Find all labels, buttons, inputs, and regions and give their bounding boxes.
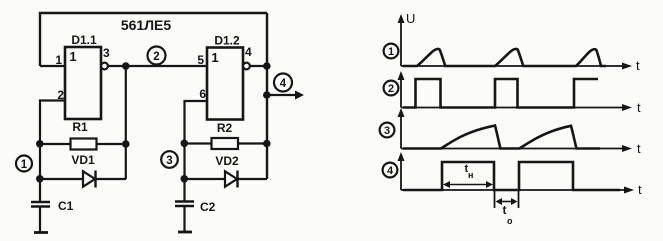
wire gate1 output to gate2 pin5 bbox=[108, 65, 207, 67]
svg-text:t: t bbox=[637, 141, 641, 156]
waveform 3 trace bbox=[403, 126, 600, 149]
wire pin1 input D1.1 bbox=[40, 65, 65, 67]
svg-text:U: U bbox=[406, 11, 415, 26]
junction bbox=[122, 62, 130, 70]
node 4 circle bbox=[274, 74, 292, 92]
t_pulse width arrow bbox=[447, 184, 489, 186]
wire top feedback loop bbox=[40, 13, 267, 66]
svg-text:t: t bbox=[637, 100, 641, 115]
svg-text:1: 1 bbox=[69, 49, 76, 64]
svg-text:VD2: VD2 bbox=[215, 154, 239, 168]
waveform 2 trace bbox=[403, 79, 598, 108]
svg-text:о: о bbox=[507, 216, 513, 226]
svg-text:3: 3 bbox=[103, 46, 110, 60]
svg-text:R2: R2 bbox=[217, 121, 233, 135]
wire gate2 output bbox=[250, 65, 267, 67]
capacitor C1 bbox=[31, 201, 50, 203]
svg-text:6: 6 bbox=[199, 87, 206, 101]
svg-text:3: 3 bbox=[384, 125, 390, 137]
svg-text:5: 5 bbox=[197, 53, 204, 67]
axis waveform 2 bbox=[400, 77, 402, 108]
svg-text:1: 1 bbox=[388, 46, 394, 58]
node 2 circle timing bbox=[384, 81, 399, 96]
svg-text:2: 2 bbox=[388, 83, 394, 95]
svg-text:1: 1 bbox=[211, 50, 218, 65]
axis waveform 3 bbox=[400, 114, 402, 149]
resistor R1 bbox=[40, 143, 126, 145]
svg-text:4: 4 bbox=[280, 78, 287, 90]
svg-text:C1: C1 bbox=[58, 199, 74, 213]
junction bbox=[263, 140, 271, 148]
inversion bubble D1.2 bbox=[243, 63, 250, 70]
svg-text:2: 2 bbox=[153, 51, 159, 63]
t_pause arrow bbox=[499, 201, 514, 203]
resistor R2 bbox=[185, 142, 268, 144]
t_pause extension lines bbox=[494, 190, 496, 208]
svg-text:4: 4 bbox=[387, 165, 394, 177]
node 3 circle timing bbox=[380, 123, 395, 138]
svg-text:t: t bbox=[638, 182, 642, 197]
wire pin6 input D1.2 bbox=[185, 101, 208, 202]
svg-text:1: 1 bbox=[21, 159, 28, 171]
junction bbox=[36, 175, 44, 183]
svg-text:D1.1: D1.1 bbox=[71, 33, 97, 47]
op-amp U1 gate D1.1 box bbox=[65, 47, 101, 119]
svg-text:C2: C2 bbox=[200, 200, 216, 214]
svg-text:2: 2 bbox=[57, 88, 64, 102]
output arrow node 4 bbox=[263, 91, 271, 99]
wire node2 vertical bbox=[125, 66, 127, 179]
inversion bubble D1.1 bbox=[101, 63, 108, 70]
svg-text:VD1: VD1 bbox=[71, 153, 95, 167]
axis U waveform 1 bbox=[400, 20, 402, 66]
waveform 1 trace bbox=[403, 49, 606, 66]
ground bbox=[178, 231, 192, 234]
node 4 circle timing bbox=[383, 163, 398, 178]
junction bbox=[181, 140, 189, 148]
diode VD2 bbox=[185, 178, 268, 180]
svg-text:3: 3 bbox=[166, 155, 172, 167]
svg-text:1: 1 bbox=[55, 53, 62, 67]
svg-text:н: н bbox=[468, 170, 473, 180]
svg-text:t: t bbox=[503, 203, 507, 217]
capacitor C2 bbox=[175, 200, 194, 202]
wire pin2 input D1.1 bbox=[40, 101, 65, 203]
junction bbox=[36, 140, 44, 148]
diode VD1 bbox=[40, 178, 126, 180]
svg-text:D1.2: D1.2 bbox=[214, 34, 240, 48]
op-amp U2 gate D1.2 box bbox=[207, 48, 243, 120]
node 1 circle timing bbox=[384, 44, 399, 59]
node 1 circle bbox=[16, 156, 32, 172]
waveform 4 trace bbox=[403, 162, 620, 190]
ground bbox=[34, 231, 48, 234]
svg-text:R1: R1 bbox=[72, 120, 88, 134]
svg-text:561ЛЕ5: 561ЛЕ5 bbox=[121, 17, 172, 33]
junction bbox=[263, 62, 271, 70]
node 3 circle bbox=[161, 151, 178, 168]
node 2 circle bbox=[148, 47, 166, 65]
junction bbox=[122, 140, 130, 148]
svg-text:t: t bbox=[636, 58, 640, 73]
wire right vertical bus bbox=[266, 13, 268, 179]
junction bbox=[181, 175, 189, 183]
axis waveform 4 bbox=[400, 158, 402, 190]
svg-text:4: 4 bbox=[245, 45, 252, 59]
